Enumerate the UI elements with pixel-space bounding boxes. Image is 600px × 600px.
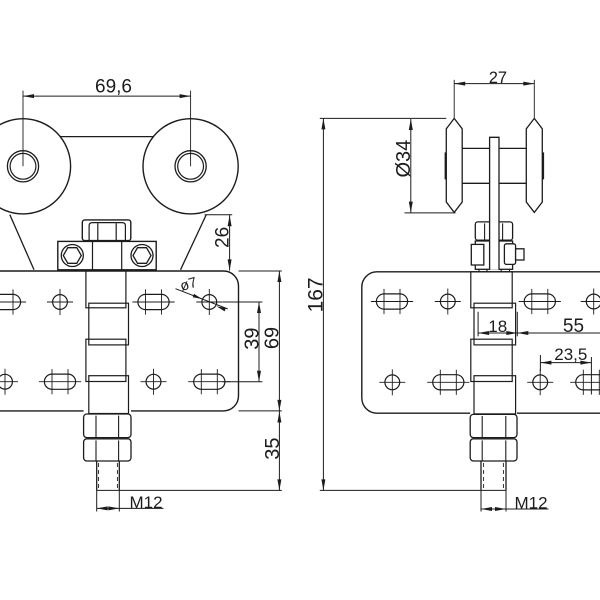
- dimension M12 (side view) extension lines: [480, 490, 482, 511]
- roller wheel right profile (side view): [526, 118, 542, 212]
- clamp bracket (side view): [475, 241, 512, 269]
- dimension 39 extension lines: [223, 301, 263, 303]
- plate hole slot row1 col1 (front): [0, 294, 21, 309]
- dimension line M12 (side view): [481, 508, 549, 510]
- leader line dia 7: [176, 289, 228, 309]
- mounting plate (front view, cut by image left edge): [0, 271, 239, 411]
- dimension 27 extension line left: [453, 80, 455, 119]
- plate hole slot row1 col3 (front): [138, 294, 169, 309]
- hanger flat bar / axle shank (side view): [490, 137, 499, 269]
- dimension line dia 34: [410, 119, 412, 213]
- dimension 18 extension lines: [477, 312, 479, 337]
- svg-text:167: 167: [304, 277, 327, 312]
- dimension line M12 (front view): [97, 507, 164, 509]
- threaded rod M12 (front view): [96, 461, 98, 490]
- roller wheel right (front view): [143, 119, 238, 214]
- plate hole circle row2 col1 (side): [385, 375, 400, 390]
- lock nut upper on threaded rod (side view): [470, 414, 517, 437]
- svg-text:M12: M12: [514, 494, 547, 513]
- rod bottom edge / extension line for dims 35 and M12: [97, 489, 282, 491]
- svg-text:18: 18: [488, 317, 507, 336]
- plate hole circle row2 col3 (front): [146, 374, 161, 389]
- svg-text:69: 69: [261, 327, 283, 349]
- svg-text:M12: M12: [129, 493, 162, 512]
- clamp bolt protruding end (side view): [516, 249, 524, 260]
- plate top edge extension to dimension 69: [239, 270, 282, 272]
- plate hole circle row1 col2 (side): [440, 294, 455, 309]
- hanger strap segment 1 (side view): [471, 272, 512, 308]
- axle hub lower line: [462, 182, 489, 184]
- front view: body left slanted edge: [10, 215, 34, 270]
- roller wheel right flange mark: [542, 152, 544, 179]
- lock nut upper on threaded rod (front view): [84, 414, 131, 438]
- svg-text:23,5: 23,5: [554, 345, 587, 364]
- hanger strap segment 3 (front view): [86, 339, 126, 381]
- plate hole slot row1 col3 (side): [524, 294, 555, 309]
- hanger strap segment 2 (side view): [474, 303, 516, 345]
- plate hole circle row1 col4 (front, dia 7): [202, 295, 217, 310]
- plate hole slot row1 col1 (side): [376, 294, 407, 309]
- roller wheel left flange mark: [445, 152, 447, 179]
- plate hole slot row2 col2 (front): [44, 374, 75, 389]
- extension line bottom of rollers (dia 34): [405, 212, 456, 214]
- mounting plate (side view, cut by image right edge): [362, 272, 600, 413]
- hex nut on axle (side view): [475, 222, 512, 240]
- dimension line 27: [454, 83, 534, 85]
- hanger strap segment 4 (front view): [89, 376, 129, 414]
- front view: body right slanted edge: [181, 215, 207, 270]
- dimension line 35: [278, 411, 280, 491]
- clamp nut (side view): [504, 244, 515, 265]
- dimension line 69: [278, 271, 280, 411]
- axle hub upper line: [462, 147, 489, 149]
- hex bolt left in bracket: [61, 245, 83, 267]
- dimension 27 extension line right: [533, 80, 535, 119]
- plate hole circle row1 col4 (side): [586, 294, 600, 309]
- dimension line 23,5: [540, 362, 591, 364]
- hanger strap segment 4 (side view): [474, 376, 516, 414]
- plate hole slot row2 col4 (front): [194, 374, 225, 389]
- clamp bolt head (side view): [471, 244, 484, 265]
- dimension M12 (front view) extension lines: [96, 490, 98, 511]
- roller wheel left (front view): [0, 119, 71, 214]
- bracket plate with bolts (front view): [58, 241, 156, 269]
- svg-text:26: 26: [213, 227, 234, 248]
- dimension line 18: [478, 332, 517, 334]
- hex nut M12 on top of bracket (front view): [82, 220, 131, 241]
- plate hole slot row2 col2 (side): [433, 375, 464, 390]
- dimension line 55: [517, 332, 600, 334]
- lock nut lower on threaded rod (side view): [470, 439, 517, 461]
- clamp feet ticks (side view): [478, 269, 480, 272]
- dimension 69,6 extension/centerline left: [22, 91, 24, 167]
- plate hole circle row1 col2 (front): [53, 295, 68, 310]
- hanger strap segment 2 (front view): [89, 303, 129, 345]
- hanger strap segment 3 (side view): [471, 339, 512, 381]
- dimension line 167: [322, 118, 324, 490]
- dimension 23,5 extension lines: [539, 355, 541, 371]
- rod bottom edge / extension line for dim 167: [320, 489, 506, 491]
- hanger strap segment 1 (front view): [86, 271, 126, 308]
- front view: trolley body top edge between wheels: [60, 136, 153, 138]
- extension line top of rollers (dims 167 and dia 34): [320, 117, 447, 119]
- dimension 26 line: [229, 215, 231, 271]
- roller wheel left profile (side view): [446, 118, 462, 212]
- plate bottom edge extension: [239, 410, 282, 412]
- hex bolt right in bracket: [131, 245, 153, 267]
- plate hole circle row2 col1 (front): [0, 374, 12, 389]
- threaded rod M12 (side view): [480, 461, 482, 490]
- svg-text:Ø34: Ø34: [393, 140, 415, 178]
- plate hole slot row2 col4 (side): [576, 375, 600, 390]
- svg-text:39: 39: [241, 327, 263, 349]
- dimension line 39: [258, 302, 260, 382]
- dimension line 69,6: [23, 95, 191, 97]
- plate hole circle row2 col3 (side): [533, 375, 548, 390]
- dimension 69,6 extension/centerline right: [190, 91, 192, 167]
- svg-text:55: 55: [563, 316, 584, 337]
- svg-text:35: 35: [262, 437, 284, 459]
- svg-text:27: 27: [489, 69, 507, 87]
- lock nut lower on threaded rod (front view): [84, 439, 131, 461]
- extension line at wheel bottom tangent (for dim 26): [205, 214, 233, 216]
- svg-text:69,6: 69,6: [95, 76, 132, 97]
